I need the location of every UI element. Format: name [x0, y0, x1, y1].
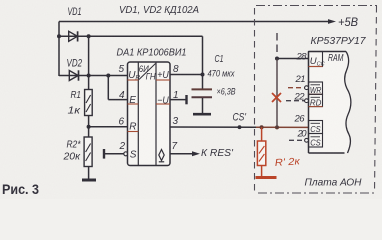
inversion bubble pin 20 — [305, 138, 309, 142]
ground bar under R' (red) — [256, 176, 277, 179]
wire left vertical from rail to VD2 — [58, 22, 60, 77]
diode VD1 — [69, 31, 78, 41]
wire cut trace Ucc to CS — [276, 59, 278, 128]
resistor R' (red) — [257, 127, 265, 176]
wire +5V rail — [59, 19, 336, 24]
RAM pin cell CS upper — [309, 121, 323, 134]
wire pin 8 — [170, 74, 203, 76]
RAM pin cell RD — [309, 94, 323, 107]
ground bar under C1 — [193, 113, 211, 116]
wire pin 1 with chassis bar — [170, 95, 187, 104]
wire VD1 row — [59, 35, 203, 37]
junction VD1 left — [57, 34, 61, 38]
resistor R2 — [84, 137, 92, 167]
wire pin 2 with chassis bar — [104, 149, 128, 159]
RAM chip body DD КР537РУ17 — [309, 52, 351, 154]
ground bar under R2 — [82, 179, 96, 182]
dashed trace rail to pin28 — [276, 33, 278, 56]
capacitor C1 — [192, 89, 213, 113]
paper noise overlay — [0, 0, 1, 1]
dashed board boundary Плата АОН — [255, 6, 378, 194]
wire C1 top vertical — [202, 36, 204, 89]
dashed wire pin 21 — [288, 87, 305, 89]
dashed wire pin 22 — [286, 100, 305, 102]
wire R2 to ground — [88, 167, 90, 180]
junction dot R' branch — [260, 125, 264, 129]
IC cell divider rows (red) — [128, 80, 171, 132]
junction pin5/pin4 tie — [106, 74, 110, 78]
wire pin 28 — [277, 58, 309, 60]
timer IC DA1 body — [128, 62, 171, 166]
inversion bubble pin 22 — [305, 99, 309, 103]
wire pin 4 — [108, 99, 127, 101]
wire R1 top vertical — [88, 36, 90, 89]
wire pin5 to pin4 vertical — [107, 76, 109, 100]
wire pin 6 — [89, 126, 128, 128]
RAM pin cell WR — [309, 82, 323, 95]
dashed wire pin 20 — [289, 139, 305, 141]
junction VD1 right — [87, 34, 91, 38]
RAM pin cell CS lower — [309, 134, 323, 148]
IC open-collector diamond — [159, 150, 164, 162]
wire pin 3 / CS' line — [170, 126, 256, 128]
wire pin 7 with arrow — [170, 151, 200, 156]
junction dot under CS' — [238, 125, 242, 129]
inversion bubble pin 21 — [305, 86, 309, 90]
RAM pin cell Ucc — [309, 52, 325, 68]
junction pin28/trace — [275, 57, 279, 61]
cut mark X (red) — [272, 93, 281, 102]
wire R1 to R2 — [88, 116, 90, 138]
junction VD2/R1 — [87, 74, 91, 78]
diode VD2 — [69, 70, 78, 80]
IC generator symbol G1/ГН — [139, 64, 156, 82]
junction R1/R2/pin6 — [87, 125, 91, 129]
junction dot trace branch — [275, 125, 279, 129]
resistor R1 — [85, 90, 93, 116]
wire VD2 row / pin 5 — [59, 75, 128, 77]
junction pin8/C1 — [201, 73, 205, 77]
